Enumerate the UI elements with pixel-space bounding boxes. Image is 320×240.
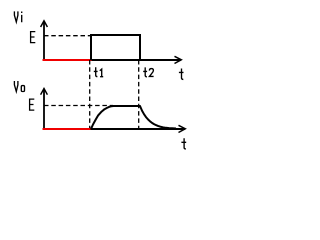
label Vi: [14, 11, 21, 22]
label t2: [143, 67, 153, 76]
Vo zero segment (red): [43, 128, 91, 130]
Vo charge/discharge waveform: [91, 106, 176, 129]
Vi time axis (black part): [90, 59, 181, 61]
Vo time axis (black part): [90, 128, 185, 130]
Vo time axis arrowhead: [179, 125, 186, 132]
label E (Vi axis): [31, 31, 36, 43]
label Vo: [14, 81, 24, 92]
t2 dashed guide: [138, 60, 140, 130]
label E (Vo axis): [30, 99, 35, 111]
E level dashed guide (Vo): [44, 105, 113, 107]
Vi time axis arrowhead: [175, 56, 182, 63]
Vi pulse waveform: [91, 35, 140, 60]
t1 dashed guide: [89, 60, 91, 130]
Vo vertical axis arrowhead: [41, 89, 48, 95]
Vi zero segment (red): [43, 59, 92, 61]
label t (Vo axis): [181, 138, 186, 149]
Vi vertical axis: [43, 21, 45, 60]
label t1: [94, 67, 103, 76]
E level dashed guide (Vi): [44, 35, 90, 37]
Vo vertical axis: [43, 89, 45, 130]
label t (Vi axis): [179, 69, 184, 80]
Vi vertical axis arrowhead: [41, 21, 48, 27]
